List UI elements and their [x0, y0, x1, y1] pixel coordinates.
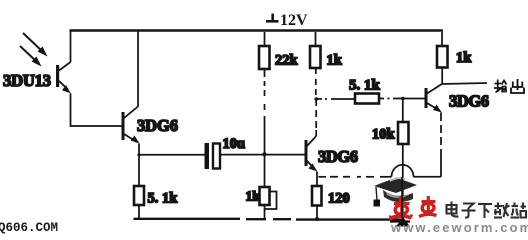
logo bug 虫 first (red): [390, 197, 412, 221]
下 char: [478, 204, 492, 218]
node Q3 base / R7 junction: [401, 97, 405, 101]
resistor R3 22k: [259, 32, 270, 69]
wire Q3 emitter vertical: [440, 113, 442, 122]
电 char: [447, 202, 459, 217]
resistor R6 5.1k horizontal: [355, 94, 379, 104]
svg-text:1k: 1k: [246, 189, 261, 204]
wire R3 bottom to divider node (dashed): [264, 69, 266, 154]
svg-text:5. 1k: 5. 1k: [148, 191, 179, 207]
wire divider node to R4: [264, 154, 266, 187]
phototransistor 3DU13: [56, 31, 71, 94]
svg-text:12V: 12V: [280, 12, 308, 29]
capacitor C1 10u: [205, 143, 221, 169]
resistor R8 120: [312, 186, 322, 218]
transistor Q1 3DG6: [122, 107, 140, 144]
svg-text:Q606.COM: Q606.COM: [0, 221, 58, 234]
wire R5 bottom to Q2 collector (dashed): [315, 68, 317, 136]
出 char: [511, 79, 524, 93]
node Q2 collector junction: [314, 97, 318, 101]
node ground rail end blob: [396, 217, 410, 227]
wire R6 to Q3 base (dash-dot): [379, 98, 425, 100]
wire R7 lead visible over logo: [401, 177, 403, 218]
resistor R5 1k: [310, 32, 321, 68]
svg-text:10u: 10u: [223, 136, 246, 152]
wire Q2 emitter to Q3 emitter (dashed with hop over R7 lead): [319, 165, 442, 177]
wire Q1 emitter down to R2: [138, 144, 140, 187]
wire Q2 emitter down to R8: [316, 172, 318, 187]
label 电子下载站 (gray site name): [447, 202, 527, 219]
logo bug 虫 second (red): [419, 196, 437, 217]
svg-text:3DG6: 3DG6: [318, 147, 358, 166]
载 char: [494, 203, 510, 218]
svg-text:3DG6: 3DG6: [137, 116, 178, 135]
node divider junction: [263, 152, 267, 156]
子 char: [462, 204, 476, 218]
light arrow 1: [23, 33, 48, 57]
logo mortarboard cap: [374, 178, 418, 207]
resistor R4 1k: [260, 187, 277, 218]
wire C1 to Q2 base: [220, 154, 305, 156]
输 char: [494, 80, 507, 93]
light arrow 2: [20, 46, 42, 67]
svg-text:1k: 1k: [456, 50, 472, 66]
svg-text:www.eeworm.com: www.eeworm.com: [390, 220, 528, 234]
svg-text:1k: 1k: [327, 53, 343, 69]
node Q1 emitter / C1 branch: [137, 153, 140, 156]
wire node to C1 left plate: [139, 154, 205, 156]
wire output line: [442, 83, 487, 84]
svg-text:120: 120: [328, 191, 350, 207]
wire top +12V rail: [70, 29, 444, 31]
wire bottom rail: [134, 218, 404, 221]
svg-text:3DG6: 3DG6: [449, 92, 489, 111]
wire R7 bottom to rail (crosses under hop): [402, 144, 404, 218]
svg-text:10k: 10k: [372, 127, 396, 143]
resistor R7 10k: [398, 99, 409, 145]
svg-text:3DU13: 3DU13: [3, 71, 51, 90]
wire Q1 collector to +12V rail: [137, 31, 139, 107]
transistor Q2 3DG6: [305, 136, 318, 172]
svg-text:5. 1k: 5. 1k: [349, 78, 381, 94]
resistor R2 5.1k: [134, 186, 144, 218]
node R8 ground junction: [315, 217, 319, 221]
transistor Q3 3DG6: [425, 84, 442, 113]
power label +12V: [266, 12, 308, 29]
label output 输出: [494, 79, 524, 93]
resistor R9 1k: [437, 32, 448, 84]
wire Q2 collector node to R6 (dash-dot): [316, 98, 355, 100]
站 char: [511, 203, 527, 218]
svg-text:22k: 22k: [275, 53, 299, 69]
wire phototransistor emitter to Q1 base: [71, 93, 122, 126]
